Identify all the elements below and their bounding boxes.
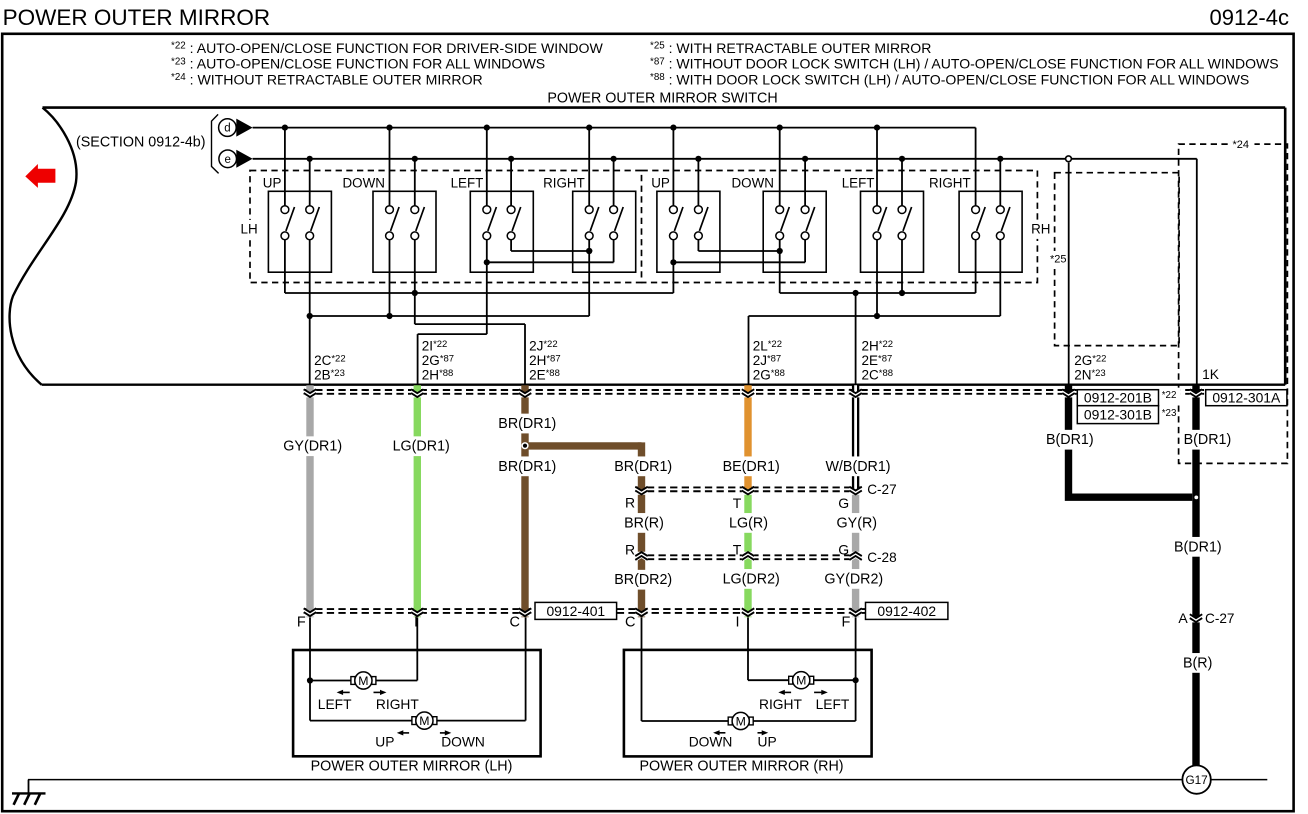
svg-text:d: d (224, 123, 230, 135)
svg-text:0912-301B: 0912-301B (1084, 407, 1152, 423)
svg-text:DOWN: DOWN (441, 735, 485, 750)
svg-text:(SECTION 0912-4b): (SECTION 0912-4b) (76, 135, 206, 151)
svg-text:0912-402: 0912-402 (877, 603, 936, 619)
svg-text:G17: G17 (1185, 773, 1207, 787)
svg-text:0912-4c: 0912-4c (1209, 5, 1289, 30)
svg-text:0912-401: 0912-401 (546, 603, 605, 619)
svg-text:F: F (297, 615, 306, 631)
svg-text:UP: UP (758, 735, 777, 750)
svg-text:UP: UP (375, 735, 394, 750)
svg-text:B(DR1): B(DR1) (1184, 432, 1232, 448)
svg-text:T: T (733, 542, 742, 558)
svg-text:GY(DR2): GY(DR2) (824, 571, 883, 587)
svg-text:RIGHT: RIGHT (759, 697, 802, 712)
svg-text:e: e (224, 154, 230, 166)
svg-text:BR(DR2): BR(DR2) (614, 572, 672, 588)
svg-text:DOWN: DOWN (732, 175, 774, 190)
svg-text:*22 : AUTO-OPEN/CLOSE FUNCTION: *22 : AUTO-OPEN/CLOSE FUNCTION FOR DRIVE… (171, 40, 604, 56)
svg-text:RIGHT: RIGHT (376, 697, 419, 712)
svg-text:F: F (842, 615, 851, 631)
svg-text:*24 : WITHOUT RETRACTABLE OUTE: *24 : WITHOUT RETRACTABLE OUTER MIRROR (171, 71, 483, 87)
svg-text:BE(DR1): BE(DR1) (723, 459, 780, 475)
svg-text:LEFT: LEFT (842, 175, 875, 190)
svg-text:G: G (838, 542, 849, 558)
svg-text:C-28: C-28 (867, 550, 896, 565)
svg-text:RIGHT: RIGHT (543, 175, 585, 190)
svg-text:LEFT: LEFT (318, 697, 352, 712)
svg-text:I: I (414, 615, 418, 631)
svg-text:*25: *25 (1050, 254, 1067, 266)
svg-text:I: I (736, 615, 740, 631)
svg-text:C-27: C-27 (867, 482, 896, 497)
svg-text:B(R): B(R) (1183, 655, 1212, 671)
svg-text:G: G (838, 495, 849, 511)
svg-text:DOWN: DOWN (689, 735, 733, 750)
svg-text:*25 : WITH RETRACTABLE OUTER M: *25 : WITH RETRACTABLE OUTER MIRROR (650, 40, 931, 56)
svg-text:B(DR1): B(DR1) (1174, 539, 1222, 555)
svg-text:1K: 1K (1202, 367, 1220, 382)
svg-text:B(DR1): B(DR1) (1046, 432, 1094, 448)
svg-text:UP: UP (651, 175, 670, 190)
svg-text:0912-201B: 0912-201B (1084, 390, 1152, 406)
svg-text:LEFT: LEFT (451, 175, 484, 190)
svg-text:*23 : AUTO-OPEN/CLOSE FUNCTION: *23 : AUTO-OPEN/CLOSE FUNCTION FOR ALL W… (171, 56, 545, 72)
svg-text:C: C (510, 615, 520, 631)
svg-text:BR(DR1): BR(DR1) (498, 416, 556, 432)
svg-text:POWER OUTER MIRROR SWITCH: POWER OUTER MIRROR SWITCH (547, 91, 777, 107)
svg-text:POWER OUTER MIRROR (RH): POWER OUTER MIRROR (RH) (639, 759, 843, 775)
svg-text:RIGHT: RIGHT (929, 175, 971, 190)
svg-text:C: C (625, 615, 635, 631)
svg-text:LG(DR1): LG(DR1) (393, 439, 450, 455)
svg-text:LG(R): LG(R) (729, 515, 768, 531)
svg-text:DOWN: DOWN (343, 175, 385, 190)
svg-text:M: M (358, 674, 368, 688)
svg-text:R: R (625, 542, 635, 558)
svg-text:M: M (796, 674, 806, 688)
svg-text:*24: *24 (1233, 139, 1250, 151)
svg-text:RH: RH (1031, 222, 1050, 237)
svg-text:BR(DR1): BR(DR1) (614, 459, 672, 475)
svg-text:POWER OUTER MIRROR: POWER OUTER MIRROR (3, 5, 271, 30)
svg-text:GY(R): GY(R) (837, 515, 878, 531)
svg-text:*23: *23 (1162, 408, 1177, 419)
svg-text:A: A (1178, 610, 1188, 626)
svg-text:GY(DR1): GY(DR1) (283, 439, 342, 455)
svg-text:LG(DR2): LG(DR2) (723, 571, 780, 587)
svg-text:UP: UP (263, 175, 282, 190)
svg-text:M: M (736, 714, 746, 728)
svg-text:BR(R): BR(R) (624, 515, 664, 531)
svg-text:T: T (733, 495, 742, 511)
svg-text:POWER OUTER MIRROR (LH): POWER OUTER MIRROR (LH) (311, 759, 513, 775)
svg-text:0912-301A: 0912-301A (1212, 390, 1281, 406)
svg-text:R: R (625, 495, 635, 511)
svg-text:*87 : WITHOUT DOOR LOCK SWITCH: *87 : WITHOUT DOOR LOCK SWITCH (LH) / AU… (650, 56, 1279, 72)
svg-text:*22: *22 (1162, 390, 1177, 401)
svg-text:LH: LH (241, 222, 258, 237)
svg-text:*88 : WITH DOOR LOCK SWITCH (L: *88 : WITH DOOR LOCK SWITCH (LH) / AUTO-… (650, 71, 1249, 87)
svg-text:W/B(DR1): W/B(DR1) (825, 459, 890, 475)
svg-text:M: M (419, 714, 429, 728)
svg-text:BR(DR1): BR(DR1) (498, 459, 556, 475)
svg-text:LEFT: LEFT (816, 697, 850, 712)
svg-text:C-27: C-27 (1205, 611, 1234, 626)
